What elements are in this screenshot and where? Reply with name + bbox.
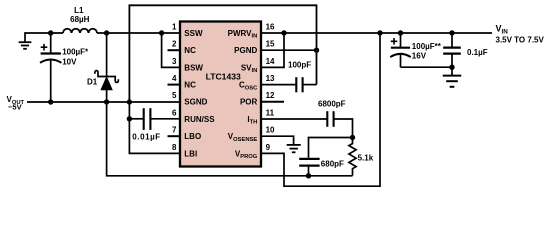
- capacitor 6800pF plates: [326, 111, 328, 127]
- diode D1 schottky cathode bar: [95, 71, 118, 83]
- svg-text:5.1k: 5.1k: [358, 153, 374, 162]
- capacitor C3 100µF** plus plate: [391, 47, 410, 49]
- wire C3 bottom lead: [400, 54, 402, 67]
- resistor R1 5.1k zigzag: [349, 138, 356, 176]
- svg-text:100µF*: 100µF*: [62, 48, 89, 57]
- node junction compensation RC: [350, 135, 355, 140]
- plus sign C3: [391, 38, 398, 45]
- svg-text:4: 4: [172, 74, 177, 83]
- op-amp U1 LTC1433 IC body: [180, 22, 261, 167]
- svg-text:10: 10: [266, 126, 275, 135]
- inductor L1 coil: [63, 29, 97, 33]
- svg-text:3: 3: [172, 57, 177, 66]
- svg-text:1: 1: [172, 22, 177, 31]
- svg-text:L1: L1: [74, 6, 84, 15]
- svg-text:7: 7: [172, 126, 177, 135]
- wire C4 top lead: [451, 33, 453, 47]
- wire ground stem input: [451, 67, 453, 75]
- node junction VOUT riser: [127, 99, 132, 104]
- svg-text:12: 12: [266, 91, 275, 100]
- wire VOUT riser down to pin 8 LBI: [129, 102, 180, 153]
- wire D1 anode lead: [106, 90, 108, 102]
- wire pin 11 ITH to 6800pF: [260, 118, 327, 120]
- node junction C4 on VIN rail: [449, 30, 454, 35]
- svg-text:14: 14: [266, 57, 275, 66]
- svg-text:6: 6: [172, 108, 177, 117]
- svg-text:LTC1433: LTC1433: [206, 71, 241, 81]
- wire C3 bottom to ground node: [401, 66, 453, 68]
- svg-text:68µH: 68µH: [70, 15, 90, 24]
- wire outer loop VOUT to PGND net: [129, 5, 316, 102]
- wire VIN rail from pin 16 PWRVIN: [260, 32, 492, 34]
- svg-text:680pF: 680pF: [321, 160, 344, 169]
- capacitor 680pF plates: [299, 158, 319, 160]
- wire switch node right segment to pin 1 SSW: [97, 32, 181, 34]
- capacitor C1 100µF* plus plate: [41, 52, 61, 54]
- wire pin 14 SVIN riser to VIN rail: [260, 33, 284, 67]
- node junction C3 on VIN rail: [398, 30, 403, 35]
- wire 0.01µF left lead: [129, 118, 143, 120]
- svg-text:PGND: PGND: [234, 46, 257, 55]
- wire C3 top lead: [400, 33, 402, 47]
- svg-text:SGND: SGND: [184, 98, 207, 107]
- svg-text:NC: NC: [184, 81, 196, 90]
- wire 0.01µF to pin 6 RUN/SS: [150, 118, 180, 120]
- node junction D1 bottom on VOUT rail: [104, 99, 109, 104]
- node junction VPROG riser on VIN rail: [377, 30, 382, 35]
- node junction PGND on outer loop: [314, 48, 319, 53]
- node junction 680pF on bottom rail: [306, 173, 311, 178]
- svg-text:11: 11: [266, 108, 275, 117]
- svg-text:VIN: VIN: [496, 24, 509, 36]
- ground input supply: [443, 76, 462, 87]
- wire C1 top lead: [50, 33, 52, 53]
- node junction input ground: [449, 65, 454, 70]
- svg-text:D1: D1: [87, 77, 98, 86]
- svg-text:BSW: BSW: [184, 63, 203, 72]
- svg-text:16V: 16V: [412, 52, 427, 61]
- wire ground drop top-left: [24, 32, 26, 42]
- node junction RUN/SS cap tap: [127, 116, 132, 121]
- wire VOUT rail to pin 5 SGND: [27, 101, 181, 103]
- svg-text:16: 16: [266, 22, 275, 31]
- wire BSW riser to pin 3: [162, 33, 181, 67]
- capacitor C3 curved plate: [390, 54, 410, 57]
- node junction C1 bottom on VOUT rail: [48, 99, 53, 104]
- svg-text:9: 9: [266, 143, 271, 152]
- svg-text:RUN/SS: RUN/SS: [184, 115, 215, 124]
- svg-text:6800pF: 6800pF: [318, 99, 346, 108]
- svg-text:SSW: SSW: [184, 29, 203, 38]
- capacitor 100pF plates: [295, 77, 297, 92]
- svg-text:13: 13: [266, 74, 275, 83]
- capacitor 0.01µF plates: [143, 108, 145, 130]
- wire VOUT bottom rail to 5.1k: [107, 102, 353, 176]
- wire pin 9 VPROG loop to VIN rail: [260, 33, 380, 186]
- wire pin 15 PGND to outer loop: [260, 49, 317, 51]
- wire D1 cathode lead: [106, 33, 108, 76]
- wire 6800pF to compensation node: [334, 119, 353, 138]
- capacitor C4 0.1µF plates: [443, 46, 461, 48]
- node junction BSW riser: [159, 30, 164, 35]
- wire 100pF to outer loop: [303, 84, 317, 86]
- stub pin 7 LBO: [168, 135, 181, 137]
- wire 680pF bottom lead: [308, 166, 310, 176]
- stub pin 2 NC: [168, 49, 181, 51]
- node junction SVIN riser on VIN rail: [281, 30, 286, 35]
- wire comp node to 680pF top: [309, 138, 353, 158]
- svg-text:100pF: 100pF: [288, 60, 311, 69]
- svg-text:NC: NC: [184, 46, 196, 55]
- svg-text:15: 15: [266, 40, 275, 49]
- svg-text:0.1µF: 0.1µF: [467, 48, 488, 57]
- ground pin 10 VOSENSE: [287, 145, 301, 152]
- wire pin 10 VOSENSE to ground: [260, 136, 294, 144]
- node junction D1 top: [104, 30, 109, 35]
- svg-text:−5V: −5V: [8, 103, 23, 112]
- svg-text:10V: 10V: [62, 58, 77, 67]
- svg-text:2: 2: [172, 40, 177, 49]
- svg-text:0.01µF: 0.01µF: [132, 133, 160, 142]
- svg-text:LBI: LBI: [184, 149, 197, 158]
- node junction C1 top: [48, 30, 53, 35]
- svg-text:8: 8: [172, 143, 177, 152]
- svg-text:POR: POR: [240, 98, 258, 107]
- wire C1 bottom lead: [50, 59, 52, 102]
- svg-text:3.5V TO 7.5V: 3.5V TO 7.5V: [496, 36, 545, 45]
- svg-text:5: 5: [172, 91, 177, 100]
- capacitor C1 curved plate: [40, 60, 61, 63]
- ground top-left: [19, 42, 32, 49]
- plus sign C1: [41, 44, 48, 51]
- wire C4 bottom lead: [451, 54, 453, 68]
- svg-text:100µF**: 100µF**: [412, 42, 442, 51]
- wire switch node left segment: [25, 32, 63, 34]
- wire pin 13 COSC to 100pF: [260, 84, 296, 86]
- stub pin 12 POR: [260, 101, 284, 103]
- stub pin 4 NC: [168, 84, 181, 86]
- svg-text:LBO: LBO: [184, 132, 201, 141]
- diode D1 triangle: [101, 77, 112, 89]
